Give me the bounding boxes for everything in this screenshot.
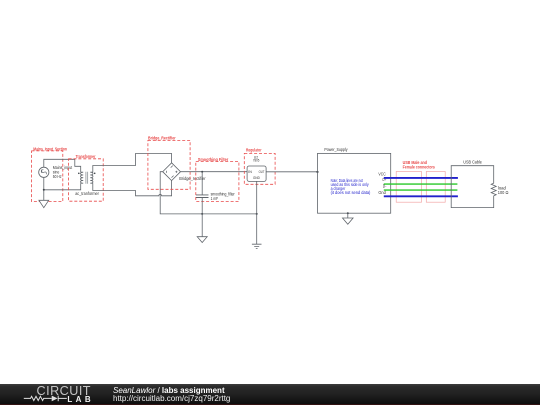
dot primary	[78, 173, 80, 175]
svg-text:(it does not send data): (it does not send data)	[331, 190, 371, 195]
label load 100 ohm	[498, 186, 509, 195]
wire source bottom to ground and primary bottom	[44, 177, 81, 200]
svg-text:Bridge_Rectifier: Bridge_Rectifier	[148, 135, 176, 140]
connector box male	[396, 172, 421, 203]
svg-text:Smoothing Filter: Smoothing Filter	[198, 157, 229, 162]
wire regulator OUT to power supply	[266, 171, 318, 173]
voltage source V1 Mains_input	[39, 167, 49, 177]
pin labels VCC D+ D- Gnd	[378, 171, 387, 195]
svg-text:7805: 7805	[253, 157, 260, 162]
wire Gnd blue	[384, 195, 458, 197]
svg-text:IN: IN	[248, 169, 252, 174]
junction dot cap top	[201, 171, 203, 173]
svg-text:1 mF: 1 mF	[211, 196, 219, 201]
svg-text:ac_tranformer: ac_tranformer	[75, 191, 99, 196]
junction dot regulator gnd rail	[256, 213, 258, 215]
junction dot power supply gnd	[347, 212, 349, 214]
dot secondary	[94, 173, 96, 175]
svg-text:OUT: OUT	[259, 169, 265, 174]
junction dot cap bottom	[201, 213, 203, 215]
svg-text:LAB: LAB	[67, 395, 90, 404]
section box Transformer	[69, 154, 104, 201]
block Power_Supply	[318, 147, 391, 213]
wire secondary top to bridge top	[93, 154, 172, 173]
svg-text:50 Hz: 50 Hz	[53, 174, 62, 179]
junction dot source bottom	[43, 189, 45, 191]
section box Regulator	[244, 147, 275, 184]
ground G2	[197, 214, 207, 243]
regulator U2 7805	[247, 154, 266, 181]
svg-text:GND: GND	[253, 175, 260, 180]
pin dot power supply input	[317, 171, 319, 173]
section box Mains_Input_Section	[32, 146, 68, 201]
footer bar	[0, 384, 540, 405]
svg-text:CIRCUIT: CIRCUIT	[37, 384, 91, 398]
svg-text:100 Ω: 100 Ω	[498, 190, 509, 195]
wire D- green	[384, 189, 458, 191]
svg-text:Mains_Input_Section: Mains_Input_Section	[33, 146, 67, 151]
svg-text:Power_Supply: Power_Supply	[324, 147, 348, 152]
label Mains_input sine 50 Hz	[53, 165, 73, 179]
logo CIRCUIT LAB	[0, 384, 100, 405]
label USB Male and Female connectors	[403, 160, 436, 170]
wire D+ green	[384, 183, 458, 185]
svg-text:Transformer: Transformer	[76, 154, 96, 159]
transformer T1 ac_tranformer	[81, 172, 93, 184]
ground G3 earth	[252, 244, 262, 248]
section box Bridge_Rectifier	[148, 135, 190, 189]
ground G1	[39, 200, 49, 207]
block USB Cable	[451, 159, 494, 207]
svg-text:Female connectors: Female connectors	[403, 165, 436, 170]
wire source top to transformer primary top	[44, 159, 81, 172]
capacitor C1 smoothing_filter	[196, 172, 209, 214]
svg-text:USB Cable: USB Cable	[463, 159, 482, 164]
bridge rectifier D1	[163, 163, 181, 181]
label smoothing_filter 1 mF	[211, 191, 236, 201]
wire VCC blue	[384, 177, 458, 179]
svg-text:Regulator: Regulator	[246, 147, 262, 152]
connector box female	[426, 172, 445, 203]
wire regulator GND down	[256, 181, 258, 244]
ground G4	[343, 213, 354, 224]
wire bridge minus to bottom rail	[160, 172, 257, 214]
note text blue	[331, 178, 371, 195]
section box Smoothing Filter	[196, 157, 239, 201]
resistor R1 load	[491, 183, 496, 196]
wire bridge plus to regulator IN	[181, 171, 248, 173]
wire secondary bottom to bridge bottom with hop	[93, 181, 172, 196]
svg-text:VCC: VCC	[378, 171, 385, 176]
